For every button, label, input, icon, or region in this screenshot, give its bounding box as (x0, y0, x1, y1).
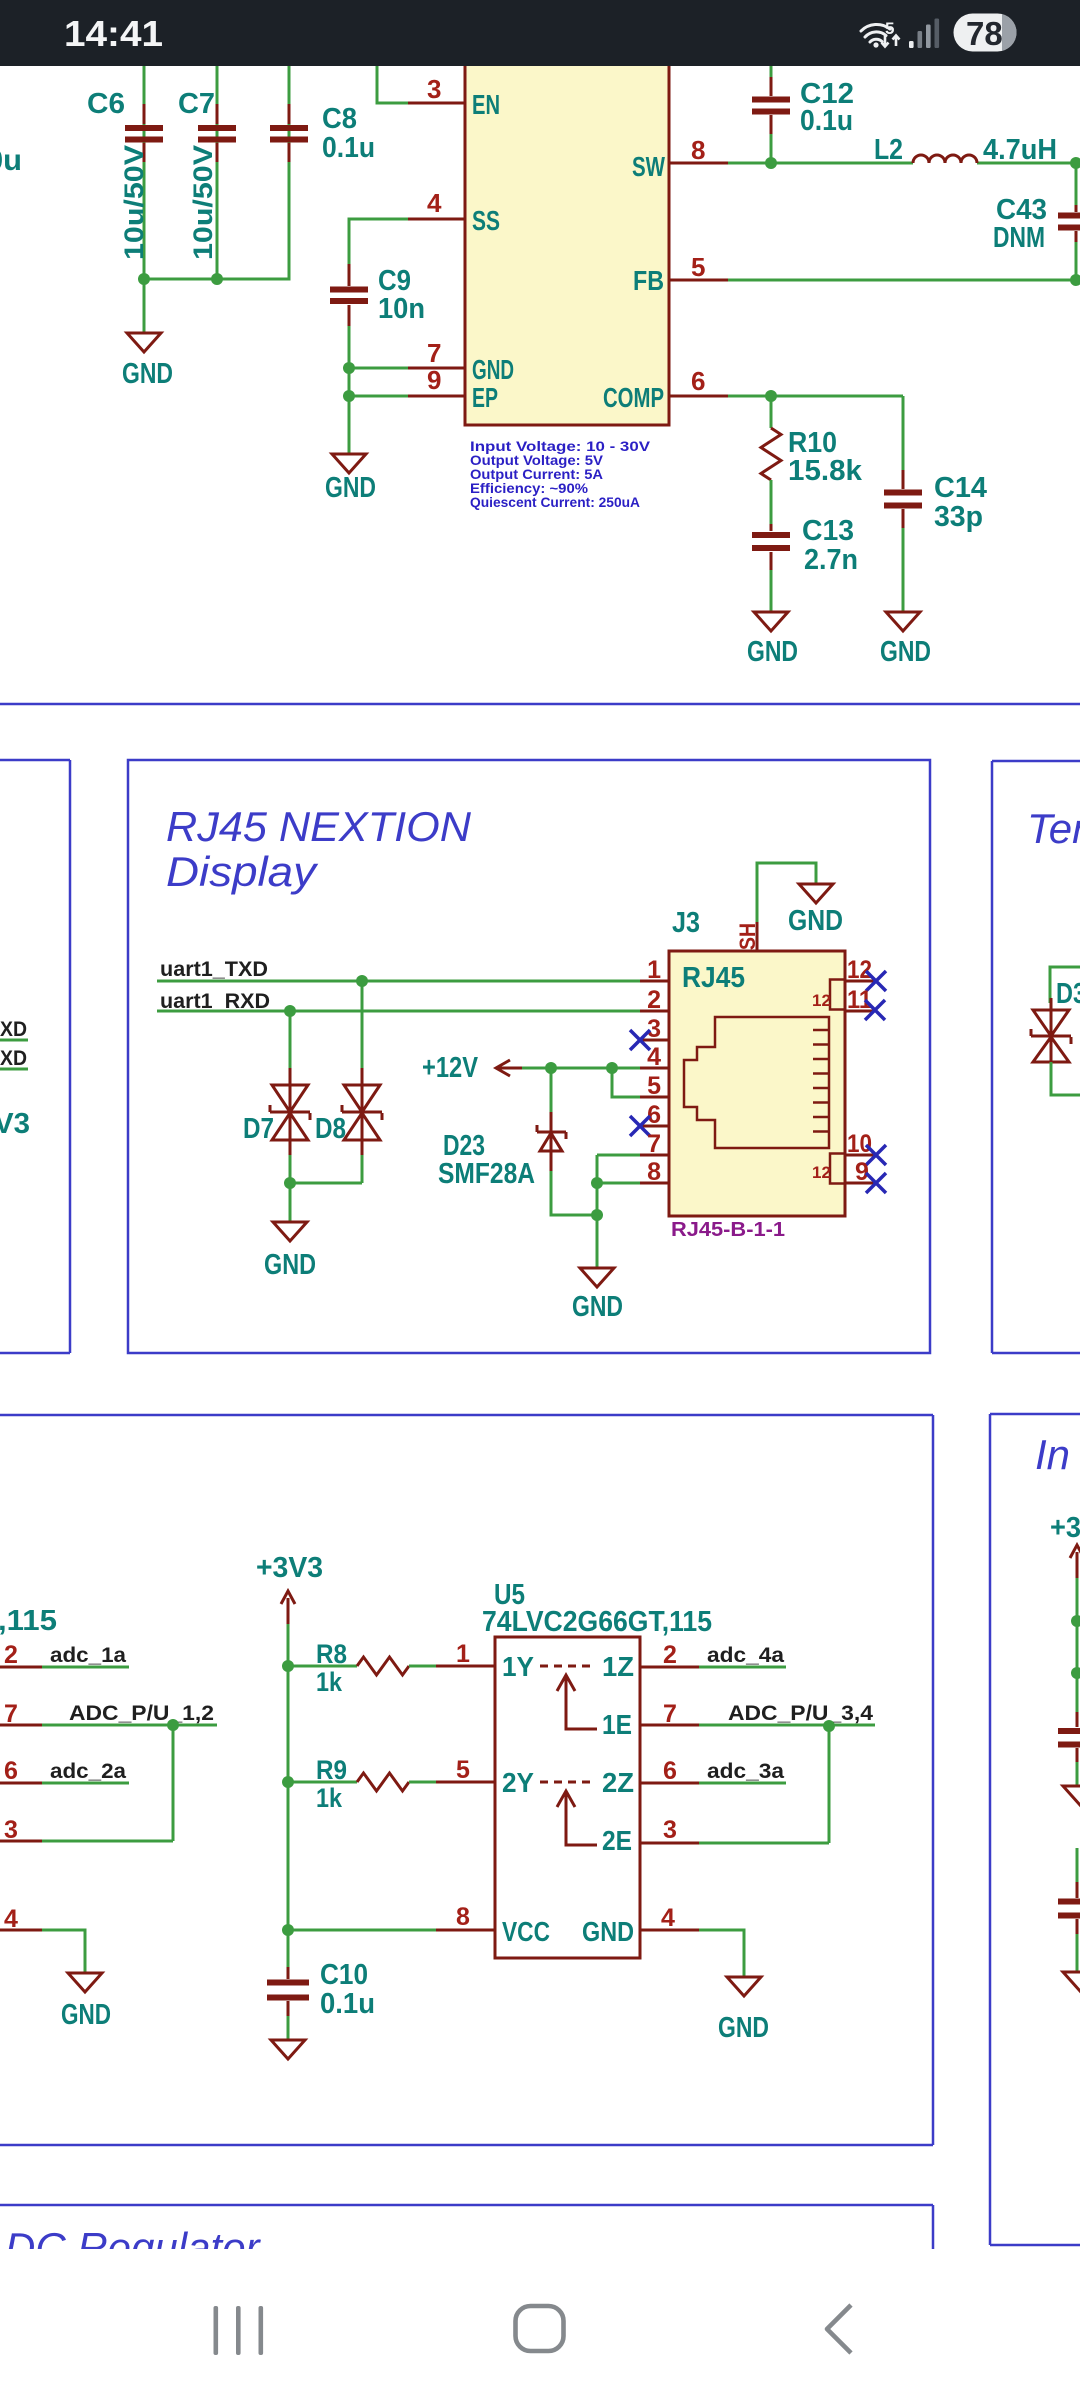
svg-text:0u: 0u (0, 144, 22, 177)
svg-text:C14: C14 (934, 472, 987, 504)
svg-text:4: 4 (647, 1043, 661, 1071)
wire right rail (1076, 1578, 1079, 1712)
wire pin 4 to ground (699, 1930, 744, 1977)
wire to D23 (550, 1068, 553, 1114)
svg-text:0.1u: 0.1u (320, 1988, 375, 2020)
switch 1 symbol (502, 1651, 634, 1740)
svg-text:2.7n: 2.7n (804, 544, 858, 576)
capacitor C7 (178, 88, 236, 260)
net label adc_2a (42, 1760, 129, 1783)
svg-text:2: 2 (4, 1641, 18, 1669)
RJ45 NEXTION sheet box (128, 760, 930, 1353)
wire C10 to ground (287, 2016, 290, 2040)
svg-text:R8: R8 (316, 1639, 347, 1669)
ground (271, 2040, 305, 2059)
capacitor right partial 1 (1058, 1712, 1080, 1762)
inductor L2 (874, 134, 1057, 166)
pin bracket upper (812, 980, 845, 1011)
svg-text:,115: ,115 (0, 1605, 57, 1637)
power label +12V (422, 1052, 522, 1084)
pin 6 (640, 1757, 699, 1785)
svg-text:10u/50V: 10u/50V (188, 145, 218, 260)
svg-text:Output Current: 5A: Output Current: 5A (470, 467, 603, 482)
switch 2 symbol (502, 1767, 634, 1856)
pin 2 (640, 1641, 699, 1669)
wire to ground (596, 1215, 599, 1268)
pin 9 EP (408, 365, 498, 413)
diode D7 TVS (243, 1068, 310, 1157)
svg-text:GND: GND (122, 358, 173, 390)
svg-text:5: 5 (456, 1756, 470, 1784)
power label +3 partial (1050, 1512, 1080, 1578)
wire to ground (1076, 1934, 1079, 1972)
ground (788, 884, 843, 937)
junction TXD branch (356, 975, 368, 987)
sheet separator line (0, 703, 1080, 706)
regulator IC U? body (465, 38, 669, 425)
svg-text:7: 7 (4, 1700, 18, 1728)
svg-text:R9: R9 (316, 1755, 347, 1785)
svg-text:5: 5 (647, 1072, 661, 1100)
svg-text:3: 3 (647, 1015, 661, 1043)
svg-text:14:41: 14:41 (64, 13, 163, 54)
wire C43 branch (1075, 163, 1078, 280)
connector J3 RJ45 body (669, 907, 845, 1241)
svg-text:8: 8 (456, 1903, 470, 1931)
svg-text:COMP: COMP (603, 382, 664, 413)
svg-text:3: 3 (663, 1816, 677, 1844)
analog switch U5 body (482, 1579, 712, 1958)
svg-text:C7: C7 (178, 88, 215, 120)
diode D3 TVS (1031, 978, 1080, 1072)
wire to R8 (288, 1665, 357, 1668)
svg-text:6: 6 (647, 1101, 661, 1129)
svg-text:adc_3a: adc_3a (707, 1760, 784, 1783)
svg-text:1Y: 1Y (502, 1651, 534, 1682)
svg-text:GND: GND (582, 1916, 634, 1947)
svg-text:DNM: DNM (993, 222, 1045, 254)
net label uart1_RXD (157, 990, 640, 1013)
net label ADC_P/U_1,2 (42, 1702, 217, 1725)
wire R9 to pin 5 (409, 1781, 436, 1784)
pin 6 no-connect (630, 1101, 669, 1136)
svg-text:C6: C6 (87, 88, 125, 120)
sheet title RJ45 NEXTION Display (166, 803, 472, 895)
wire +3V3 rail (287, 1624, 290, 1971)
bottom sheet box (0, 1415, 933, 2145)
ground (122, 333, 173, 390)
svg-text:SH: SH (735, 923, 760, 950)
svg-text:4: 4 (4, 1905, 18, 1933)
svg-text:12: 12 (812, 991, 831, 1010)
IC doc text (470, 439, 650, 510)
svg-text:1k: 1k (316, 1783, 343, 1813)
svg-text:C8: C8 (322, 103, 357, 135)
svg-text:adc_2a: adc_2a (50, 1760, 126, 1783)
wire R10 to C13 (770, 480, 773, 528)
wire D3 top (1050, 967, 1080, 1003)
svg-text:6: 6 (691, 366, 705, 396)
net label adc_3a (699, 1760, 786, 1783)
svg-text:GND: GND (325, 472, 376, 504)
svg-text:SS: SS (472, 205, 500, 236)
svg-text:78: 78 (966, 15, 1003, 52)
left partial sheet box (0, 760, 70, 1353)
svg-text:J3: J3 (672, 907, 700, 939)
svg-text:2E: 2E (602, 1825, 632, 1856)
net label adc_4a (699, 1644, 786, 1667)
svg-text:Display: Display (166, 848, 319, 895)
pin 7 (640, 1130, 669, 1158)
wifi icon (861, 24, 890, 47)
wire to ground (143, 279, 146, 333)
resistor R8 (316, 1639, 409, 1697)
svg-text:11: 11 (847, 986, 872, 1014)
svg-text:XD: XD (0, 1018, 27, 1041)
svg-text:6: 6 (663, 1757, 677, 1785)
svg-text:3: 3 (4, 1816, 18, 1844)
net label ADC_P/U_3,4 (699, 1702, 875, 1725)
wire pin 4 U4 to ground (42, 1930, 85, 1973)
svg-text:XD: XD (0, 1047, 27, 1070)
diode D8 TVS (315, 1068, 382, 1157)
wire SH to ground (757, 863, 816, 922)
svg-text:D7: D7 (243, 1113, 274, 1145)
wire to D8 (361, 981, 364, 1070)
svg-text:7: 7 (663, 1700, 677, 1728)
pin 11 no-connect (845, 986, 885, 1020)
wire COMP node (728, 396, 903, 428)
wire to D7 (289, 1011, 292, 1070)
wire C6 top (143, 50, 146, 279)
svg-text:RJ45: RJ45 (682, 962, 745, 994)
wire C12 top (770, 60, 773, 163)
svg-text:0.1u: 0.1u (322, 132, 375, 164)
pin 5 (640, 1072, 669, 1100)
svg-text:V3: V3 (0, 1108, 30, 1140)
pin 4 SS (408, 188, 500, 236)
pin 1 (640, 956, 669, 984)
diode D23 SMF28A (438, 1112, 566, 1190)
capacitor C14 (884, 470, 987, 533)
svg-text:EP: EP (472, 382, 498, 413)
ground (325, 454, 376, 504)
svg-text:Input Voltage: 10 - 30V: Input Voltage: 10 - 30V (470, 439, 650, 454)
svg-text:10: 10 (847, 1130, 872, 1158)
svg-text:12: 12 (847, 956, 872, 984)
svg-text:7: 7 (427, 338, 441, 368)
wire D7 D8 to ground (290, 1155, 362, 1222)
svg-text:GND: GND (788, 905, 843, 937)
pin labels VCC GND (502, 1916, 634, 1947)
ground (880, 612, 931, 668)
svg-text:9: 9 (855, 1158, 869, 1186)
wire pin 8 branch (597, 1182, 640, 1185)
pin 1 (436, 1640, 495, 1668)
svg-text:4: 4 (661, 1904, 675, 1932)
capacitor right partial 2 (1058, 1882, 1080, 1934)
node XD label 2 (0, 1047, 28, 1070)
net label adc_1a (42, 1644, 129, 1667)
pin 3 U4 (0, 1816, 42, 1844)
svg-text:FB: FB (633, 265, 664, 296)
wire +12V rail (522, 1067, 640, 1070)
pin 7 (640, 1700, 699, 1728)
pin 2 (640, 986, 669, 1014)
wire right rail 2 (1076, 1848, 1079, 1882)
wire enable loop left (42, 1725, 173, 1841)
svg-text:uart1_TXD: uart1_TXD (160, 958, 268, 981)
wire SS (349, 219, 408, 265)
pin SH (735, 922, 760, 951)
pin 8 SW (632, 135, 728, 182)
ground partial (1063, 1786, 1080, 1805)
pin 12 no-connect (845, 956, 886, 991)
svg-text:5: 5 (885, 19, 894, 38)
capacitor C6 (87, 88, 163, 260)
svg-text:10n: 10n (378, 293, 425, 325)
capacitor C10 (267, 1959, 375, 2020)
junction dots C6 C7 rail (138, 273, 150, 285)
svg-text:1: 1 (647, 956, 661, 984)
wire to ground (1076, 1762, 1079, 1786)
RJ45 jack graphic (684, 1017, 829, 1148)
wire C9 to pins (349, 326, 408, 396)
svg-text:6: 6 (4, 1757, 18, 1785)
capacitor C9 (330, 264, 425, 326)
svg-text:1: 1 (456, 1640, 470, 1668)
svg-text:Ter: Ter (1027, 805, 1080, 852)
svg-text:1Z: 1Z (602, 1651, 634, 1682)
wire VCC (288, 1929, 436, 1932)
power label +3V3 (256, 1552, 323, 1624)
wire C13 to ground (770, 570, 773, 612)
pin 8 (436, 1903, 495, 1931)
wire D23 to ground node (551, 1171, 597, 1215)
svg-text:L2: L2 (874, 134, 903, 166)
wire C14 branch (902, 396, 905, 612)
svg-text:GND: GND (572, 1291, 623, 1323)
wire C8 top (144, 50, 289, 279)
pin 3 (640, 1816, 699, 1844)
pin 6 U4 (0, 1757, 42, 1785)
svg-text:VCC: VCC (502, 1916, 550, 1947)
svg-text:12: 12 (812, 1163, 831, 1182)
wire FB (728, 279, 1080, 282)
wire SW node (728, 162, 1080, 165)
svg-text:9: 9 (427, 365, 441, 395)
svg-text:adc_4a: adc_4a (707, 1644, 784, 1667)
svg-text:GND: GND (880, 636, 931, 668)
bottom right sheet box (990, 1414, 1080, 2245)
svg-text:+12V: +12V (422, 1052, 479, 1084)
svg-text:2: 2 (663, 1641, 677, 1669)
ground (572, 1268, 623, 1323)
ground (718, 1977, 769, 2044)
pin 7 GND (408, 338, 514, 385)
svg-text:1k: 1k (316, 1667, 343, 1697)
pin 4 (640, 1904, 699, 1932)
svg-text:5: 5 (691, 252, 705, 282)
svg-text:4: 4 (427, 188, 442, 218)
NAVBAR (214, 2305, 852, 2355)
pin 4 U4 (0, 1905, 42, 1933)
wire to R9 (288, 1781, 357, 1784)
pin 9 no-connect (845, 1158, 886, 1193)
wire EN (377, 50, 408, 103)
svg-text:3: 3 (427, 74, 441, 104)
svg-text:GND: GND (61, 1999, 111, 2031)
right partial sheet box Terminal (992, 761, 1080, 1353)
svg-text:ADC_P/U_3,4: ADC_P/U_3,4 (728, 1702, 873, 1725)
svg-text:15.8k: 15.8k (788, 455, 863, 487)
wire D3 bottom (1051, 1062, 1080, 1095)
ground partial (1063, 1972, 1080, 1991)
svg-text:1E: 1E (602, 1709, 632, 1740)
svg-text:D8: D8 (315, 1113, 346, 1145)
pin 10 no-connect (845, 1130, 886, 1165)
junction RXD branch (284, 1005, 296, 1017)
svg-text:Output Voltage: 5V: Output Voltage: 5V (470, 453, 603, 468)
pin 5 (436, 1756, 495, 1784)
svg-text:SW: SW (632, 151, 665, 182)
svg-text:2Z: 2Z (602, 1767, 634, 1798)
svg-text:D3: D3 (1056, 978, 1080, 1010)
wire C7 top (216, 50, 219, 279)
pin bracket lower (812, 1154, 845, 1184)
ground (747, 612, 798, 668)
svg-text:2: 2 (647, 986, 661, 1014)
svg-text:+3V3: +3V3 (256, 1552, 323, 1584)
pin 4 (640, 1043, 669, 1071)
svg-text:GND: GND (264, 1249, 316, 1281)
node XD label 1 (0, 1018, 28, 1041)
svg-text:4.7uH: 4.7uH (983, 134, 1057, 166)
wire EP to ground (348, 396, 351, 454)
wire pin 7 branch (597, 1155, 640, 1215)
ground (264, 1222, 316, 1281)
capacitor C43 (993, 194, 1080, 254)
svg-text:C13: C13 (802, 515, 854, 547)
svg-text:33p: 33p (934, 501, 983, 533)
pin 3 no-connect (630, 1015, 669, 1050)
svg-text:EN: EN (472, 89, 500, 120)
resistor R10 (761, 427, 863, 487)
pin 3 EN (408, 74, 500, 120)
svg-text:Quiescent Current: 250uA: Quiescent Current: 250uA (470, 495, 640, 510)
svg-text:8: 8 (691, 135, 705, 165)
ground (61, 1973, 111, 2031)
resistor R9 (316, 1755, 409, 1813)
STATUSBAR (0, 0, 1080, 66)
pin 5 FB (633, 252, 728, 296)
pin 8 (640, 1158, 669, 1186)
svg-text:adc_1a: adc_1a (50, 1644, 126, 1667)
svg-text:In: In (1035, 1431, 1070, 1478)
svg-text:Efficiency: ~90%: Efficiency: ~90% (470, 481, 588, 496)
pin 7 U4 (0, 1700, 42, 1728)
svg-text:RJ45-B-1-1: RJ45-B-1-1 (671, 1219, 785, 1241)
svg-text:GND: GND (472, 354, 514, 385)
pin 6 COMP (603, 366, 728, 413)
capacitor C8 (270, 103, 375, 164)
battery (954, 14, 1018, 53)
signal bars (909, 19, 939, 49)
svg-text:8: 8 (647, 1158, 661, 1186)
wire to pin 5 (612, 1068, 640, 1097)
pin 2 U4 (0, 1641, 42, 1669)
svg-text:GND: GND (747, 636, 798, 668)
capacitor C12 (752, 77, 854, 137)
svg-text:0.1u: 0.1u (800, 105, 853, 137)
svg-text:RJ45 NEXTION: RJ45 NEXTION (166, 803, 472, 850)
net label uart1_TXD (157, 958, 640, 981)
svg-text:+3: +3 (1050, 1512, 1080, 1544)
svg-text:C10: C10 (320, 1959, 368, 1991)
next sheet box below (0, 2205, 933, 2250)
svg-text:2Y: 2Y (502, 1767, 534, 1798)
svg-text:74LVC2G66GT,115: 74LVC2G66GT,115 (482, 1606, 712, 1638)
svg-text:SMF28A: SMF28A (438, 1158, 535, 1190)
svg-text:GND: GND (718, 2012, 769, 2044)
wire enable loop right (699, 1726, 829, 1843)
wire R8 to pin 1 (409, 1665, 436, 1668)
svg-text:10u/50V: 10u/50V (119, 145, 149, 260)
svg-text:ADC_P/U_1,2: ADC_P/U_1,2 (69, 1702, 214, 1725)
capacitor C13 (752, 515, 858, 576)
svg-text:7: 7 (647, 1130, 661, 1158)
